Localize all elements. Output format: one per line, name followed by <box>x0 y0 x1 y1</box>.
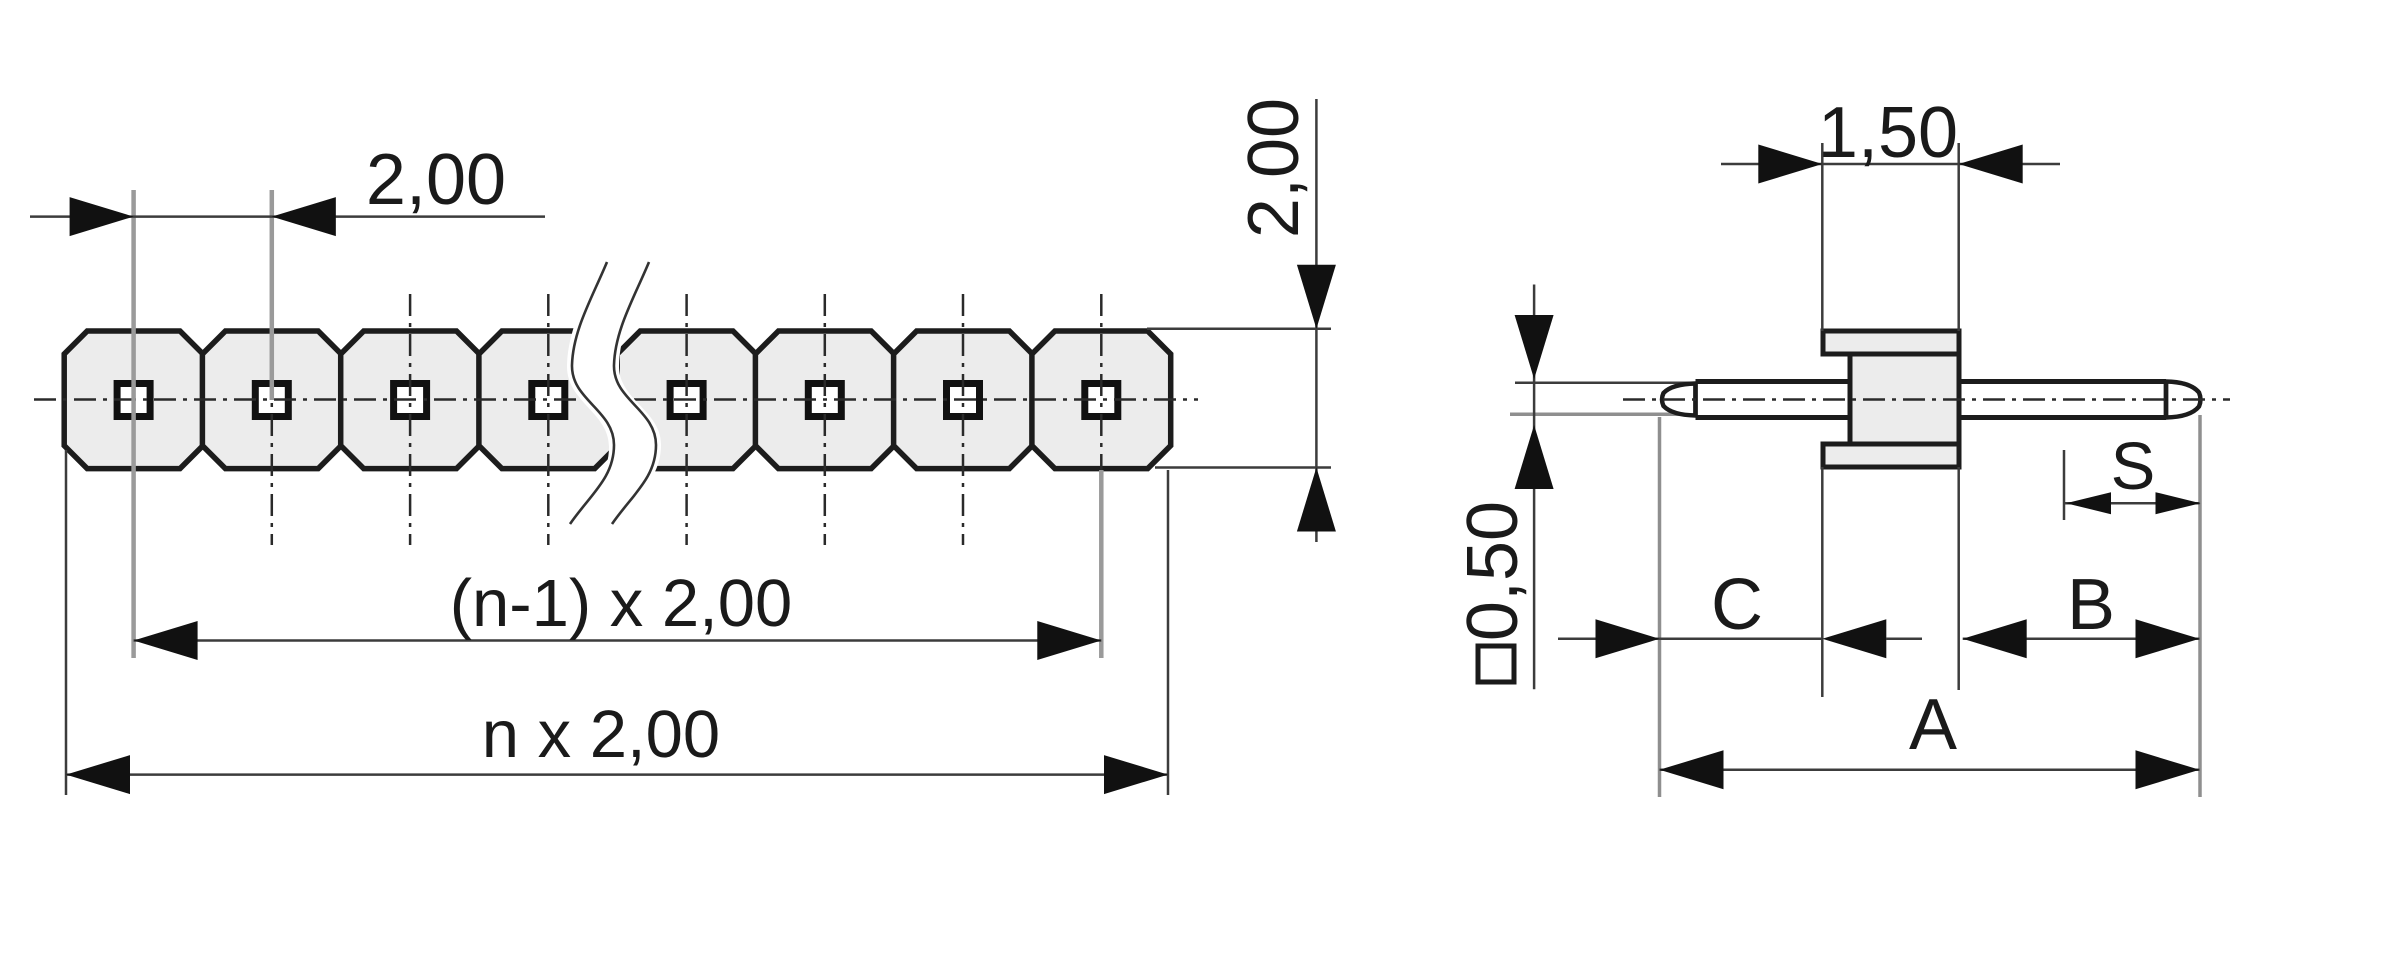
extension line body left edge (lower) <box>1821 467 1824 697</box>
dimension S : line <box>2064 502 2200 505</box>
svg-text:n x 2,00: n x 2,00 <box>482 697 720 772</box>
dimension (n-1) x 2,00 : right arrow <box>1037 621 1101 660</box>
pad P7 (octagonal pad) <box>894 331 1033 469</box>
pad 4 vertical centerline <box>547 294 550 545</box>
pin right tip base line <box>2164 382 2169 418</box>
pad P5 square hole <box>670 384 703 417</box>
pad P5 (octagonal pad) <box>617 331 756 469</box>
svg-text:(n-1) x 2,00: (n-1) x 2,00 <box>450 566 793 641</box>
pin left tip (bullet) <box>1662 384 1696 416</box>
pin centerline <box>1623 398 2230 401</box>
dimension C : left tail line <box>1558 638 1660 641</box>
pad P2 square hole <box>255 384 288 417</box>
dimension (n-1) x 2,00 : line <box>134 639 1102 642</box>
insulator top cap <box>1823 331 1959 354</box>
dimension 1,50 : left arrow <box>1758 145 1822 184</box>
dimension 2,00 height : bottom arrow <box>1297 468 1336 532</box>
extension line pin right end (gray) <box>2198 415 2202 797</box>
pad P2 (octagonal pad) <box>202 331 341 469</box>
dimension 2,00 pitch : right arrow <box>272 197 336 236</box>
extension line pin bottom edge (gray) <box>1510 413 1692 417</box>
dimension C : left arrow <box>1596 619 1660 658</box>
svg-text:0,50: 0,50 <box>1453 501 1533 641</box>
svg-text:C: C <box>1711 565 1763 645</box>
svg-text:S: S <box>2111 429 2156 504</box>
extension line pin top edge <box>1515 381 1692 384</box>
pad bottom extension line <box>1155 466 1331 469</box>
extension line pad2 center (gray) <box>270 190 275 400</box>
extension line pad1 center (gray) <box>131 190 136 658</box>
dimension n x 2,00 : right arrow <box>1104 755 1168 794</box>
extension line pad row left edge <box>65 450 68 795</box>
dimension S : left arrow <box>2066 492 2111 514</box>
dimension 2,00 pitch : left arrow <box>70 197 134 236</box>
pad P6 square hole <box>808 384 841 417</box>
dimension 1,50 : line <box>1721 163 2060 166</box>
dimension B : left arrow <box>1963 619 2027 658</box>
dimension C : right tail line <box>1886 638 1922 641</box>
dimension A : left arrow <box>1660 750 1724 789</box>
pad P1 square hole <box>117 384 150 417</box>
pin shaft top edge <box>1696 379 2167 384</box>
svg-text:1,50: 1,50 <box>1818 93 1958 173</box>
pad 7 vertical centerline <box>962 294 965 545</box>
pad P4 square hole <box>532 384 565 417</box>
dimension 0,50 : square symbol <box>1478 646 1514 682</box>
dimension n x 2,00 : left arrow <box>66 755 130 794</box>
dimension 1,50 : right arrow <box>1959 145 2023 184</box>
dimension B : right arrow <box>2136 619 2200 658</box>
break band (white out) <box>565 256 661 528</box>
dimension C : mid line <box>1660 638 1823 641</box>
pad 6 vertical centerline <box>824 294 827 545</box>
extension line S left <box>2063 450 2066 520</box>
extension line body left edge (upper) <box>1821 143 1824 331</box>
dimension S : right arrow <box>2156 492 2201 514</box>
extension line pin left end (gray) <box>1658 417 1662 797</box>
dimension (n-1) x 2,00 : left arrow <box>134 621 198 660</box>
pad P4 (octagonal pad) <box>479 331 618 469</box>
svg-text:2,00: 2,00 <box>1234 98 1314 238</box>
extension line pad8 center (gray) <box>1099 470 1104 658</box>
pad P3 (octagonal pad) <box>341 331 480 469</box>
pad P8 (octagonal pad) <box>1032 331 1171 469</box>
pin left tip base line <box>1693 382 1698 417</box>
pad 3 vertical centerline <box>409 294 412 545</box>
dimension 2,00 height : line <box>1315 99 1318 542</box>
horizontal centerline of pad row <box>34 398 1198 401</box>
pin right tip (bullet) <box>2166 382 2201 418</box>
pad P6 (octagonal pad) <box>755 331 894 469</box>
pad 2 vertical centerline <box>271 294 274 545</box>
pad P8 square hole <box>1085 384 1118 417</box>
dimension B : line <box>1963 638 2200 641</box>
break squiggle line 1 <box>570 262 614 524</box>
extension line body right edge (lower) <box>1957 467 1960 690</box>
extension line pad row right edge <box>1167 470 1170 795</box>
dimension 0,50 : bottom arrow <box>1515 425 1554 489</box>
dimension 2,00 height : top arrow <box>1297 265 1336 329</box>
extension line body right edge (upper) <box>1957 143 1960 331</box>
pad 5 vertical centerline <box>685 294 688 545</box>
dimension 0,50 : line <box>1533 285 1536 690</box>
pad 8 vertical centerline <box>1100 294 1103 545</box>
dimension A : right arrow <box>2136 750 2200 789</box>
dimension n x 2,00 : line <box>66 773 1168 776</box>
pad top extension line <box>1147 328 1331 331</box>
svg-text:A: A <box>1909 685 1957 765</box>
svg-text:B: B <box>2067 565 2115 645</box>
pad P1 (octagonal pad) <box>64 331 203 469</box>
dimension A : line <box>1660 769 2200 772</box>
dimension C : right arrow <box>1822 619 1886 658</box>
break squiggle line 2 <box>612 262 656 524</box>
dimension 0,50 : top arrow <box>1515 315 1554 379</box>
pad P3 square hole <box>394 384 427 417</box>
pad P7 square hole <box>947 384 980 417</box>
svg-text:2,00: 2,00 <box>366 140 506 220</box>
dimension 2,00 pitch : line <box>30 215 545 218</box>
insulator mid body <box>1850 354 1959 444</box>
insulator bottom cap <box>1823 444 1959 467</box>
pin shaft bottom edge <box>1696 415 2167 420</box>
